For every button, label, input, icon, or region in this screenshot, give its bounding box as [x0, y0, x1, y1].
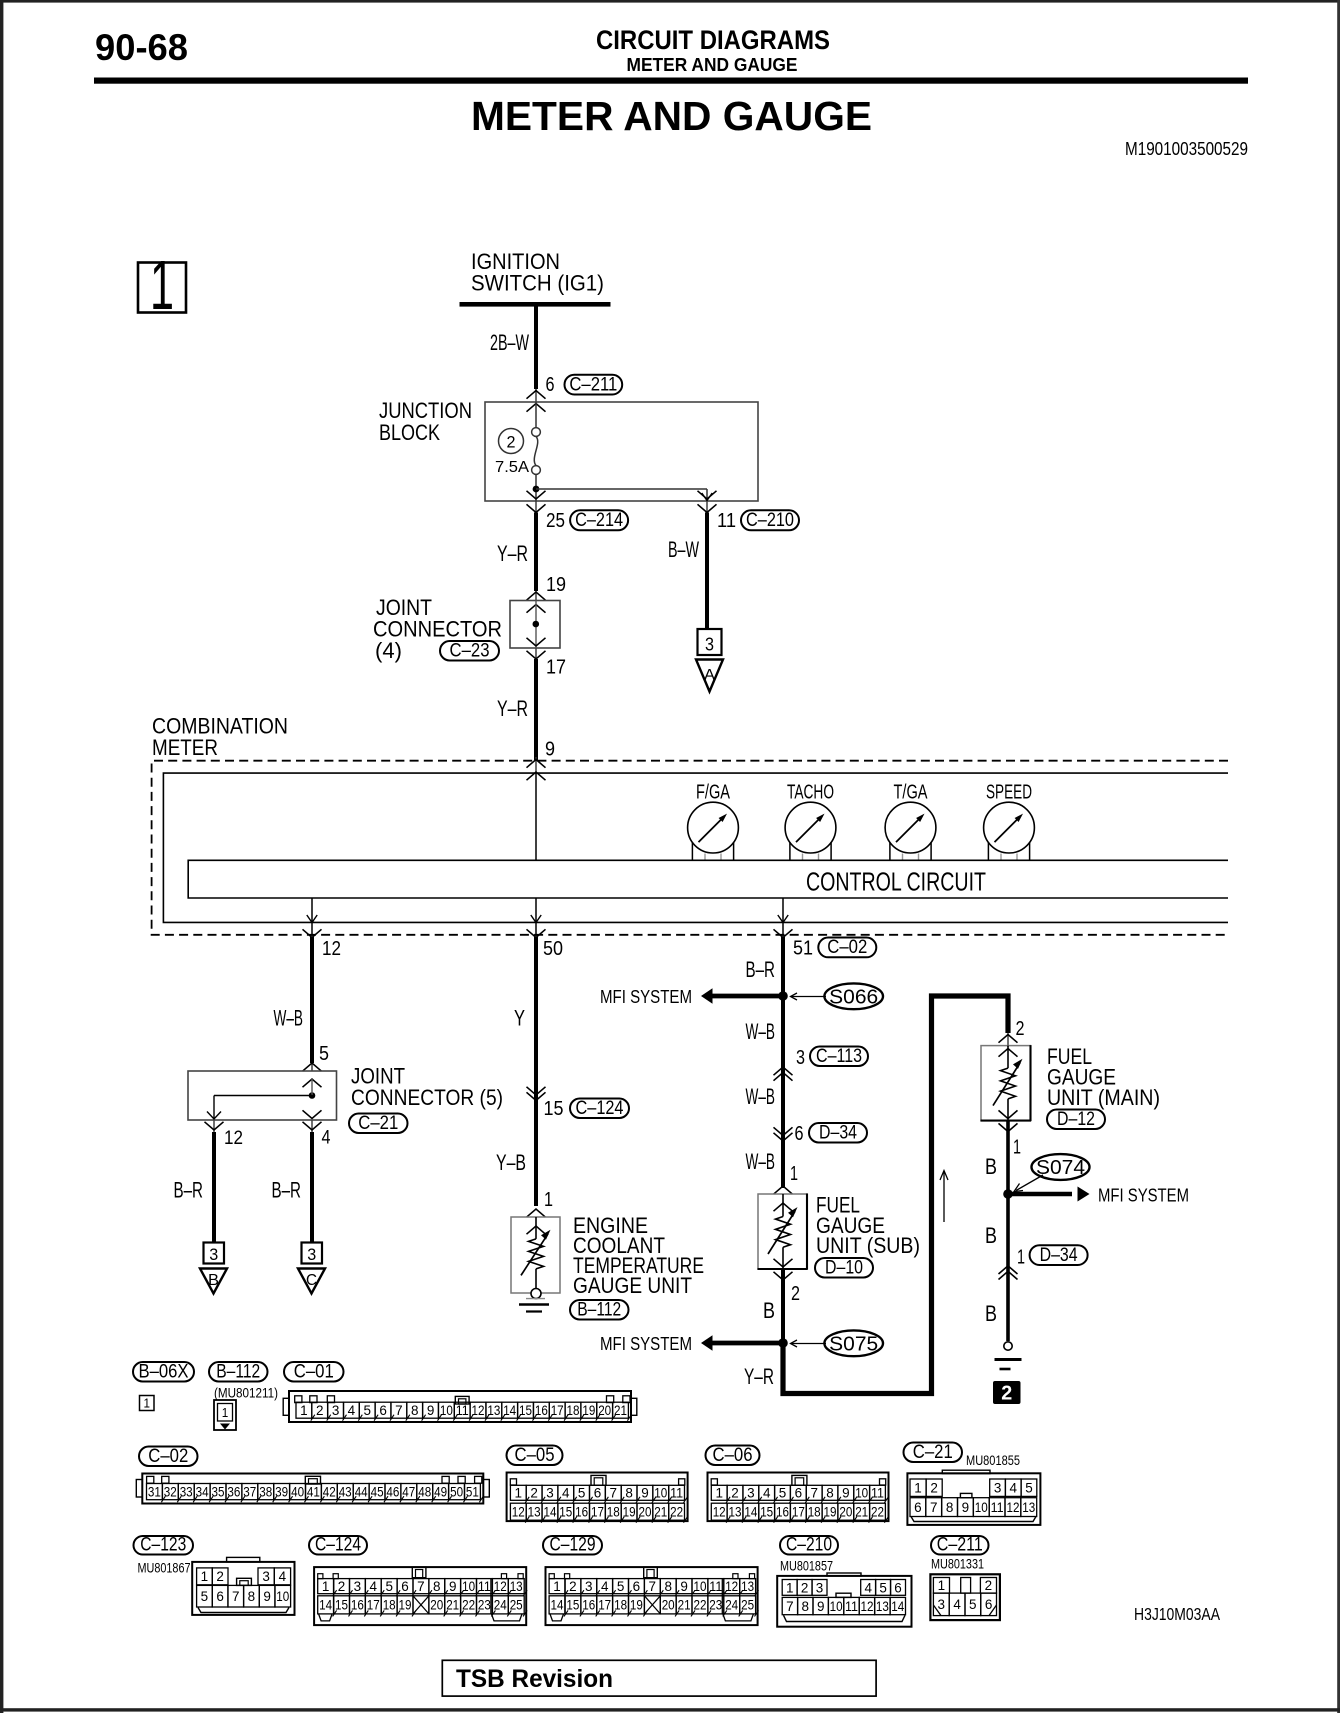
svg-text:9: 9 [817, 1599, 825, 1614]
svg-text:11: 11 [717, 510, 736, 532]
wire W-B node S066 to connector C-113 pin 3 [781, 996, 785, 1070]
svg-text:3: 3 [705, 635, 714, 655]
svg-text:12: 12 [494, 1579, 507, 1594]
svg-text:C–21: C–21 [358, 1112, 398, 1134]
svg-text:MFI SYSTEM: MFI SYSTEM [600, 987, 692, 1007]
svg-text:C–124: C–124 [576, 1097, 624, 1119]
svg-text:22: 22 [871, 1505, 884, 1520]
connector label C-124 [309, 1536, 367, 1555]
svg-text:11: 11 [670, 1486, 683, 1501]
svg-text:3: 3 [816, 1580, 824, 1595]
svg-text:90-68: 90-68 [95, 27, 188, 68]
svg-text:7: 7 [395, 1403, 403, 1418]
svg-text:17: 17 [598, 1598, 611, 1613]
svg-text:15: 15 [760, 1505, 773, 1520]
svg-text:B–06X: B–06X [139, 1360, 189, 1382]
svg-text:13: 13 [729, 1505, 742, 1520]
svg-text:9: 9 [641, 1486, 649, 1501]
svg-text:8: 8 [625, 1486, 633, 1501]
svg-text:C–23: C–23 [450, 639, 490, 661]
svg-text:21: 21 [654, 1505, 667, 1520]
figure number 1 box [138, 263, 186, 313]
svg-text:C–124: C–124 [315, 1533, 361, 1555]
svg-text:W–B: W–B [746, 1084, 776, 1109]
svg-text:17: 17 [551, 1403, 564, 1418]
connector label C-06 [706, 1446, 760, 1466]
svg-text:40: 40 [291, 1484, 304, 1499]
svg-text:16: 16 [575, 1505, 588, 1520]
svg-text:9: 9 [545, 739, 555, 761]
connector C-123 pinout drawing [227, 1557, 260, 1562]
svg-text:10: 10 [276, 1589, 289, 1604]
svg-text:4: 4 [322, 1128, 331, 1149]
off-page connector C terminal 3 [302, 1243, 323, 1264]
svg-text:16: 16 [351, 1598, 364, 1613]
svg-text:S066: S066 [829, 987, 878, 1009]
svg-text:5: 5 [319, 1043, 329, 1065]
svg-text:18: 18 [383, 1598, 396, 1613]
svg-text:B–R: B–R [174, 1178, 204, 1203]
svg-text:5: 5 [779, 1486, 787, 1501]
svg-text:METER AND GAUGE: METER AND GAUGE [471, 93, 872, 139]
svg-text:1: 1 [790, 1163, 798, 1185]
svg-text:43: 43 [339, 1484, 352, 1499]
svg-text:13: 13 [528, 1505, 541, 1520]
svg-text:17: 17 [367, 1598, 380, 1613]
connector label C-05 [507, 1446, 563, 1466]
svg-text:6: 6 [894, 1580, 902, 1595]
svg-text:6: 6 [914, 1500, 922, 1515]
svg-text:7: 7 [232, 1589, 240, 1604]
connector C-113 pin 3 inline [774, 1067, 793, 1075]
svg-text:8: 8 [802, 1599, 810, 1614]
svg-text:2: 2 [930, 1481, 938, 1496]
svg-text:25: 25 [510, 1598, 523, 1613]
svg-text:3: 3 [938, 1597, 946, 1612]
svg-text:1: 1 [300, 1403, 308, 1418]
fuel gauge unit (sub) D-10 [774, 1186, 793, 1194]
svg-text:W–B: W–B [746, 1149, 776, 1174]
svg-text:41: 41 [307, 1484, 320, 1499]
svg-text:50: 50 [450, 1484, 463, 1499]
svg-text:16: 16 [582, 1598, 595, 1613]
svg-text:METER: METER [152, 735, 218, 760]
svg-text:45: 45 [371, 1484, 384, 1499]
svg-text:8: 8 [826, 1486, 834, 1501]
svg-text:5: 5 [578, 1486, 586, 1501]
svg-text:12: 12 [725, 1579, 738, 1594]
svg-text:1: 1 [515, 1486, 523, 1501]
svg-text:TACHO: TACHO [787, 782, 834, 804]
svg-text:11: 11 [709, 1579, 722, 1594]
combination meter pin 12 exit [311, 898, 313, 936]
svg-text:C–211: C–211 [569, 373, 617, 395]
svg-text:25: 25 [546, 510, 565, 532]
svg-text:2: 2 [338, 1579, 346, 1594]
svg-text:C–02: C–02 [148, 1445, 188, 1467]
svg-text:2: 2 [801, 1580, 809, 1595]
svg-text:38: 38 [259, 1484, 272, 1499]
svg-text:9: 9 [427, 1403, 435, 1418]
svg-text:D–34: D–34 [1040, 1244, 1078, 1266]
svg-text:7: 7 [930, 1500, 938, 1515]
svg-text:12: 12 [1007, 1500, 1020, 1515]
svg-text:16: 16 [776, 1505, 789, 1520]
wire B-R joint connector C-21 pin 4 to off-page connector C [310, 1132, 314, 1243]
svg-text:44: 44 [355, 1484, 368, 1499]
combination meter pin 9 entry [535, 757, 537, 773]
svg-text:B–R: B–R [746, 957, 776, 982]
svg-text:19: 19 [546, 574, 566, 596]
svg-text:C–02: C–02 [827, 936, 867, 958]
svg-text:9: 9 [263, 1589, 271, 1604]
svg-text:2: 2 [216, 1569, 224, 1584]
wire Y-B connector C-124 to engine coolant temperature gauge unit pin 1 [534, 1097, 538, 1206]
svg-text:9: 9 [962, 1500, 970, 1515]
connector C-21 pinout drawing [942, 1470, 990, 1473]
svg-text:B–112: B–112 [216, 1360, 260, 1382]
svg-text:48: 48 [418, 1484, 431, 1499]
svg-text:3: 3 [747, 1486, 755, 1501]
svg-text:18: 18 [607, 1505, 620, 1520]
wire W-B meter pin 12 to joint connector C-21 pin 5 [310, 937, 314, 1063]
svg-text:7: 7 [417, 1579, 425, 1594]
wire Y meter pin 50 to connector C-124 pin 15 [534, 937, 538, 1097]
svg-text:13: 13 [1022, 1500, 1035, 1515]
svg-text:3: 3 [354, 1579, 362, 1594]
svg-text:MU801857: MU801857 [780, 1558, 833, 1574]
svg-text:B: B [985, 1301, 997, 1326]
svg-text:31: 31 [148, 1484, 161, 1499]
svg-text:13: 13 [876, 1599, 889, 1614]
svg-text:MU801331: MU801331 [931, 1556, 984, 1572]
svg-text:4: 4 [601, 1579, 609, 1594]
svg-text:2: 2 [507, 433, 516, 452]
svg-text:8: 8 [248, 1589, 256, 1604]
connector C-210 pinout drawing [827, 1573, 861, 1576]
svg-text:SWITCH (IG1): SWITCH (IG1) [471, 271, 604, 296]
svg-text:S075: S075 [829, 1334, 878, 1356]
svg-text:14: 14 [744, 1505, 757, 1520]
svg-text:21: 21 [678, 1598, 691, 1613]
svg-text:B–W: B–W [668, 537, 699, 562]
svg-text:C–211: C–211 [937, 1533, 983, 1555]
svg-text:4: 4 [953, 1597, 961, 1612]
svg-text:14: 14 [319, 1598, 332, 1613]
svg-text:19: 19 [824, 1505, 837, 1520]
direction arrow on loop wire [943, 1172, 945, 1222]
svg-text:B: B [208, 1272, 219, 1289]
svg-text:MU801867: MU801867 [138, 1560, 191, 1576]
svg-text:12: 12 [472, 1403, 485, 1418]
svg-text:D–10: D–10 [825, 1256, 863, 1278]
svg-text:13: 13 [510, 1579, 523, 1594]
svg-text:10: 10 [654, 1486, 667, 1501]
connector label C-211 [931, 1536, 989, 1555]
connector C-124 pin 15 inline [527, 1087, 546, 1095]
svg-text:1: 1 [322, 1579, 330, 1594]
svg-text:Y–R: Y–R [497, 541, 528, 566]
svg-text:21: 21 [446, 1598, 459, 1613]
svg-text:3: 3 [307, 1245, 316, 1264]
svg-text:C: C [306, 1272, 317, 1289]
svg-text:15: 15 [335, 1598, 348, 1613]
svg-text:23: 23 [709, 1598, 722, 1613]
svg-text:35: 35 [212, 1484, 225, 1499]
svg-text:1: 1 [914, 1481, 922, 1496]
connector label C-21 [904, 1443, 963, 1463]
svg-text:12: 12 [322, 938, 341, 960]
svg-text:1: 1 [144, 1396, 151, 1411]
svg-text:C–21: C–21 [913, 1441, 953, 1463]
svg-text:2: 2 [731, 1486, 739, 1501]
svg-text:D–34: D–34 [819, 1121, 857, 1143]
svg-text:1: 1 [938, 1578, 946, 1593]
connector C-124 pinout drawing [314, 1567, 526, 1625]
svg-text:C–01: C–01 [294, 1360, 334, 1382]
svg-text:3: 3 [585, 1579, 593, 1594]
svg-text:25: 25 [741, 1598, 754, 1613]
svg-text:10: 10 [462, 1579, 475, 1594]
svg-text:MFI SYSTEM: MFI SYSTEM [1098, 1186, 1189, 1206]
svg-text:C–129: C–129 [550, 1533, 596, 1555]
svg-text:2: 2 [791, 1283, 800, 1305]
svg-text:3: 3 [994, 1481, 1002, 1496]
svg-text:3: 3 [332, 1403, 340, 1418]
connector label B-06X [133, 1362, 194, 1382]
svg-text:49: 49 [434, 1484, 447, 1499]
svg-text:CONNECTOR (5): CONNECTOR (5) [351, 1085, 503, 1110]
svg-text:5: 5 [201, 1589, 209, 1604]
svg-text:17: 17 [546, 657, 566, 679]
TSB Revision box [442, 1660, 876, 1696]
svg-text:14: 14 [891, 1599, 904, 1614]
figure number 2 box [993, 1381, 1021, 1404]
svg-text:Y: Y [514, 1006, 525, 1031]
wire B node S074 to connector D-34 pin 1 and ground [1006, 1194, 1010, 1341]
svg-text:F/GA: F/GA [696, 782, 730, 804]
connector C-129 pinout drawing [546, 1567, 758, 1625]
connector C-210 pin 11 [706, 501, 708, 513]
svg-text:W–B: W–B [746, 1019, 776, 1044]
svg-text:6: 6 [401, 1579, 409, 1594]
connector label C-210 [780, 1536, 838, 1555]
svg-text:SPEED: SPEED [986, 782, 1032, 804]
svg-text:3: 3 [209, 1245, 218, 1264]
svg-text:21: 21 [614, 1403, 627, 1418]
svg-text:B–112: B–112 [577, 1298, 621, 1320]
svg-text:6: 6 [985, 1597, 993, 1612]
svg-text:7: 7 [610, 1486, 618, 1501]
connector C-05 pinout drawing [507, 1473, 688, 1522]
svg-text:8: 8 [433, 1579, 441, 1594]
svg-text:15: 15 [544, 1098, 564, 1120]
svg-text:18: 18 [567, 1403, 580, 1418]
svg-text:Y–R: Y–R [497, 696, 528, 721]
wire B fuel gauge unit (main) pin 1 to node S074 [1006, 1122, 1010, 1195]
svg-text:(4): (4) [375, 638, 402, 663]
svg-text:23: 23 [478, 1598, 491, 1613]
svg-text:7: 7 [810, 1486, 818, 1501]
connector C-211 pin 6 [535, 389, 537, 402]
svg-text:4: 4 [370, 1579, 378, 1594]
svg-text:3: 3 [262, 1569, 270, 1584]
wire B fuel gauge unit (sub) pin 2 to node S075 [781, 1270, 785, 1343]
svg-text:12: 12 [713, 1505, 726, 1520]
svg-text:2: 2 [1016, 1018, 1025, 1040]
svg-text:7: 7 [786, 1599, 794, 1614]
svg-text:BLOCK: BLOCK [379, 420, 440, 445]
svg-text:4: 4 [279, 1569, 287, 1584]
ground fuel gauge circuit [1004, 1342, 1012, 1350]
svg-text:11: 11 [456, 1403, 469, 1418]
svg-text:22: 22 [694, 1598, 707, 1613]
connector label B-112 [209, 1362, 268, 1382]
svg-text:2: 2 [316, 1403, 324, 1418]
svg-text:13: 13 [741, 1579, 754, 1594]
connector B-06X pin 1 icon [140, 1396, 155, 1411]
svg-text:6: 6 [594, 1486, 602, 1501]
svg-text:2: 2 [985, 1578, 993, 1593]
svg-text:9: 9 [842, 1486, 850, 1501]
svg-text:33: 33 [180, 1484, 193, 1499]
svg-text:20: 20 [662, 1598, 675, 1613]
svg-text:15: 15 [559, 1505, 572, 1520]
svg-text:B: B [985, 1154, 997, 1179]
svg-text:9: 9 [680, 1579, 688, 1594]
svg-text:B–R: B–R [272, 1178, 302, 1203]
svg-text:4: 4 [562, 1486, 570, 1501]
svg-text:47: 47 [402, 1484, 415, 1499]
svg-text:8: 8 [946, 1500, 954, 1515]
node S074 splice to MFI SYSTEM [1032, 1154, 1090, 1180]
svg-text:8: 8 [411, 1403, 419, 1418]
svg-text:6: 6 [795, 1486, 803, 1501]
svg-text:24: 24 [725, 1598, 738, 1613]
svg-text:(MU801211): (MU801211) [214, 1385, 278, 1401]
node fuse output junction [535, 474, 537, 501]
svg-text:18: 18 [808, 1505, 821, 1520]
connector label C-129 [543, 1536, 602, 1555]
svg-text:24: 24 [494, 1598, 507, 1613]
svg-text:10: 10 [855, 1486, 868, 1501]
svg-text:10: 10 [975, 1500, 988, 1515]
svg-text:9: 9 [449, 1579, 457, 1594]
svg-text:D–12: D–12 [1057, 1108, 1095, 1130]
connector C-02 pinout drawing [142, 1474, 483, 1504]
svg-text:6: 6 [546, 374, 555, 396]
svg-text:6: 6 [379, 1403, 387, 1418]
svg-text:15: 15 [519, 1403, 532, 1418]
svg-text:4: 4 [1010, 1481, 1018, 1496]
wire W-B connector C-113 to connector D-34 pin 6 [781, 1070, 785, 1141]
page frame [0, 0, 1340, 3]
ground engine coolant temperature gauge unit [526, 1298, 545, 1300]
svg-text:12: 12 [512, 1505, 525, 1520]
svg-text:19: 19 [630, 1598, 643, 1613]
svg-text:16: 16 [535, 1403, 548, 1418]
svg-text:6: 6 [795, 1123, 804, 1145]
svg-text:11: 11 [478, 1579, 491, 1594]
svg-text:11: 11 [871, 1486, 884, 1501]
connector C-06 pinout drawing [708, 1473, 889, 1522]
joint connector (5) C-21 [311, 1063, 313, 1071]
svg-text:22: 22 [670, 1505, 683, 1520]
svg-text:51: 51 [793, 938, 813, 960]
svg-text:46: 46 [386, 1484, 399, 1499]
svg-text:37: 37 [243, 1484, 256, 1499]
svg-text:7.5A: 7.5A [495, 459, 530, 476]
svg-text:51: 51 [466, 1484, 479, 1499]
svg-text:19: 19 [399, 1598, 412, 1613]
svg-text:5: 5 [969, 1597, 977, 1612]
svg-text:UNIT (MAIN): UNIT (MAIN) [1047, 1085, 1160, 1110]
svg-text:11: 11 [991, 1500, 1004, 1515]
svg-text:4: 4 [864, 1580, 872, 1595]
svg-text:C–210: C–210 [786, 1533, 832, 1555]
svg-text:1: 1 [150, 246, 174, 324]
svg-text:2: 2 [530, 1486, 538, 1501]
svg-text:3: 3 [796, 1047, 805, 1069]
svg-text:10: 10 [694, 1579, 707, 1594]
combination meter pin 50 exit [535, 898, 537, 936]
svg-text:Y–B: Y–B [496, 1150, 526, 1175]
wire Y-R joint connector C-23 to combination meter pin 9 [534, 659, 538, 760]
connector D-34 pin 6 inline [774, 1127, 793, 1135]
svg-text:H3J10M03AA: H3J10M03AA [1134, 1604, 1220, 1624]
svg-text:4: 4 [763, 1486, 771, 1501]
svg-text:12: 12 [224, 1128, 243, 1149]
svg-text:CONTROL CIRCUIT: CONTROL CIRCUIT [806, 869, 986, 897]
off-page connector A terminal 3 [698, 629, 722, 655]
svg-text:6: 6 [216, 1589, 224, 1604]
joint connector (4) C-23 [535, 591, 537, 601]
svg-text:20: 20 [598, 1403, 611, 1418]
svg-text:1: 1 [201, 1569, 209, 1584]
svg-text:10: 10 [830, 1599, 843, 1614]
svg-text:18: 18 [614, 1598, 627, 1613]
svg-text:14: 14 [551, 1598, 564, 1613]
connector C-01 pinout drawing [289, 1391, 631, 1422]
svg-text:20: 20 [839, 1505, 852, 1520]
svg-text:1: 1 [553, 1579, 561, 1594]
svg-text:7: 7 [649, 1579, 657, 1594]
connector C-211 pinout drawing [930, 1574, 1000, 1620]
svg-text:32: 32 [164, 1484, 177, 1499]
svg-text:3: 3 [546, 1486, 554, 1501]
off-page connector B terminal 3 [204, 1243, 225, 1264]
svg-text:S074: S074 [1036, 1157, 1085, 1179]
connector C-214 pin 25 [535, 501, 537, 513]
wire junction block internal branch to pin 11 [536, 488, 707, 490]
svg-text:12: 12 [861, 1599, 874, 1614]
connector label C-01 [284, 1362, 344, 1382]
svg-text:1: 1 [715, 1486, 723, 1501]
svg-text:39: 39 [275, 1484, 288, 1499]
svg-text:MFI SYSTEM: MFI SYSTEM [600, 1334, 692, 1354]
svg-text:21: 21 [855, 1505, 868, 1520]
svg-text:TSB Revision: TSB Revision [456, 1665, 613, 1693]
wire Y-R junction block to joint connector C-23 pin 19 [534, 513, 538, 592]
svg-text:C–214: C–214 [575, 509, 623, 531]
svg-text:2: 2 [569, 1579, 577, 1594]
svg-text:GAUGE UNIT: GAUGE UNIT [573, 1273, 692, 1298]
connector label C-02 [139, 1447, 198, 1467]
svg-text:B: B [763, 1298, 775, 1323]
fuse 2 (7.5A) [535, 402, 537, 428]
svg-text:M1901003500529: M1901003500529 [1125, 138, 1248, 159]
svg-text:A: A [704, 667, 716, 684]
